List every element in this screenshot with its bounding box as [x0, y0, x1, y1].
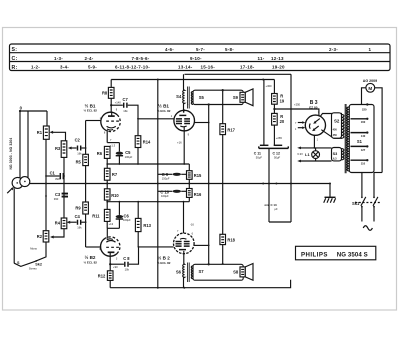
- svg-text:C3: C3: [55, 192, 61, 197]
- resistor R12: [98, 264, 113, 288]
- svg-text:20: 20: [280, 119, 285, 124]
- svg-text:6-11-8-12-7-10-: 6-11-8-12-7-10-: [115, 65, 150, 70]
- wire to B3 cathode: [274, 109, 319, 116]
- switch Sk1: [352, 173, 381, 222]
- svg-text:1: 1: [369, 47, 372, 52]
- svg-text:16k: 16k: [123, 109, 128, 113]
- capacitor C12: [273, 145, 283, 159]
- R3 wiper arrow from C2: [68, 147, 77, 150]
- svg-text:220: 220: [362, 107, 367, 111]
- svg-text:Sk2: Sk2: [35, 263, 42, 267]
- primary selector box S1: [347, 105, 374, 173]
- svg-text:50μF: 50μF: [256, 156, 263, 160]
- svg-text:R11: R11: [92, 214, 100, 219]
- svg-text:0: 0: [20, 105, 23, 110]
- wire B1a grid lead: [86, 120, 102, 122]
- tap 160: [351, 118, 369, 125]
- svg-text:450: 450: [333, 134, 338, 137]
- svg-text:½ B 2: ½ B 2: [158, 255, 171, 261]
- svg-text:C1: C1: [50, 170, 56, 175]
- capacitor C8: [110, 247, 138, 272]
- svg-text:7: 7: [318, 111, 320, 114]
- capacitor C7: [123, 97, 129, 113]
- heater wire top: [297, 147, 331, 150]
- resistor R18: [220, 234, 236, 265]
- svg-text:S6: S6: [176, 269, 182, 274]
- svg-text:S: S: [17, 261, 20, 265]
- wire B2a top node row: [107, 227, 119, 229]
- main ground bus wire: [30, 183, 330, 185]
- heater wire bottom: [297, 160, 331, 163]
- pentode B1b: [171, 104, 195, 136]
- svg-text:R8: R8: [102, 91, 108, 96]
- svg-text:100μF: 100μF: [125, 155, 133, 159]
- svg-text:17-18-: 17-18-: [240, 65, 255, 70]
- svg-text:S4: S4: [176, 94, 182, 99]
- svg-text:S2: S2: [334, 118, 340, 123]
- R1 wiper arrow: [49, 131, 65, 141]
- wire R2 top lead: [45, 184, 47, 231]
- motor AG2009: [362, 79, 383, 172]
- wire R17 to R18: [222, 135, 224, 235]
- svg-text:3: 3: [116, 258, 118, 261]
- svg-text:C 11: C 11: [254, 152, 261, 156]
- svg-text:R3: R3: [55, 146, 61, 151]
- input connector jack: [12, 177, 30, 189]
- svg-text:9: 9: [116, 109, 118, 112]
- svg-text:8: 8: [104, 131, 106, 134]
- svg-text:+250: +250: [294, 102, 301, 106]
- capacitor C9: [158, 172, 190, 180]
- svg-text:min C 13: min C 13: [265, 203, 277, 207]
- svg-text:R:: R:: [12, 65, 18, 71]
- capacitor C11: [254, 145, 269, 159]
- capacitor C5: [116, 143, 133, 164]
- svg-text:NG 3504 S: NG 3504 S: [337, 251, 368, 258]
- node +250 junction: [273, 108, 275, 110]
- wire secondary rail x208.7: [208, 105, 210, 265]
- svg-text:Sk1: Sk1: [352, 201, 360, 206]
- svg-text:S3: S3: [333, 152, 338, 156]
- svg-text:Mono: Mono: [30, 247, 37, 251]
- label B2b: [157, 255, 171, 265]
- svg-text:3-4-: 3-4-: [60, 65, 69, 70]
- cathode rail y164: [107, 158, 189, 164]
- svg-text:R12: R12: [98, 274, 106, 279]
- wire cathode node row B1a: [107, 142, 119, 144]
- svg-text:½ B1: ½ B1: [158, 102, 169, 108]
- wire rail to R8: [110, 80, 112, 88]
- svg-text:11-: 11-: [258, 56, 265, 61]
- svg-text:1-2-: 1-2-: [31, 65, 40, 70]
- table row C labels: [12, 56, 285, 62]
- svg-text:S7: S7: [199, 269, 205, 274]
- resistor R1: [37, 126, 49, 139]
- svg-text:12-13: 12-13: [271, 56, 284, 61]
- wire top-left horizontal: [20, 110, 47, 112]
- svg-text:+90: +90: [113, 265, 118, 269]
- lamp L1: [297, 148, 319, 161]
- capacitor C10: [158, 190, 190, 198]
- wire R9 bottom to B2a grid: [85, 214, 87, 247]
- rectifier B3: [305, 115, 325, 135]
- wire B2b screen lead: [194, 244, 209, 246]
- switch Sk2: [14, 188, 46, 270]
- svg-text:450: 450: [333, 129, 338, 132]
- svg-text:R18: R18: [227, 237, 235, 242]
- resistor R2: [37, 231, 49, 242]
- svg-text:4-6-: 4-6-: [165, 47, 174, 52]
- resistor R16: [187, 184, 203, 202]
- svg-text:1: 1: [171, 115, 173, 118]
- resistor R15: [187, 164, 203, 184]
- svg-text:½ B2: ½ B2: [85, 254, 96, 260]
- B3 left pin arrows: [295, 111, 320, 142]
- svg-text:2-4-: 2-4-: [85, 56, 94, 61]
- resistor R20: [272, 113, 285, 125]
- wire B2b cathode lead: [183, 202, 185, 234]
- svg-text:7-8-5-6-: 7-8-5-6-: [132, 56, 150, 61]
- svg-text:C5: C5: [125, 150, 131, 155]
- ground symbol: [324, 184, 336, 203]
- svg-text:R15: R15: [194, 173, 202, 178]
- wire B1b plate lead: [183, 109, 185, 113]
- svg-text:1-3-: 1-3-: [54, 56, 63, 61]
- svg-text:16k: 16k: [77, 151, 82, 155]
- svg-text:M: M: [368, 86, 372, 91]
- svg-text:PHILIPS: PHILIPS: [301, 251, 328, 258]
- capacitor C13 branch: [265, 148, 292, 222]
- resistor R17: [220, 89, 236, 135]
- svg-text:10k: 10k: [125, 267, 130, 271]
- wire HT rail right corner: [290, 74, 292, 222]
- wire B1b screen lead: [194, 122, 208, 124]
- svg-text:R6: R6: [97, 151, 103, 156]
- svg-text:½ ECL 82: ½ ECL 82: [157, 261, 171, 265]
- R4 wiper arrow from C4: [67, 221, 77, 224]
- label B2a: [84, 254, 98, 264]
- triode B1a: [100, 109, 121, 143]
- svg-text:R1: R1: [37, 130, 43, 135]
- svg-text:7: 7: [295, 122, 297, 125]
- svg-text:9: 9: [188, 133, 190, 136]
- svg-text:R14: R14: [143, 139, 151, 144]
- svg-text:L1: L1: [305, 152, 310, 157]
- wire x20 input to node0: [19, 111, 21, 178]
- svg-text:C 12: C 12: [273, 152, 280, 156]
- capacitor C3: [54, 192, 68, 201]
- svg-text:R13: R13: [143, 223, 151, 228]
- mains transformer S3 winding: [332, 148, 344, 161]
- svg-text:110: 110: [361, 162, 366, 166]
- connection table frame: [10, 44, 391, 71]
- capacitor C6: [116, 202, 131, 229]
- label B1a: [84, 102, 98, 112]
- wire B2b grid lead: [139, 246, 174, 248]
- R2 wiper arrow from R4: [50, 229, 64, 239]
- svg-text:C6: C6: [124, 213, 130, 218]
- resistor R4: [55, 218, 67, 229]
- svg-text:R9: R9: [75, 205, 81, 210]
- svg-text:1: 1: [317, 139, 319, 142]
- label B1b: [157, 102, 171, 112]
- svg-text:R5: R5: [76, 159, 82, 164]
- resistor R8: [102, 87, 114, 98]
- svg-text:7: 7: [110, 139, 112, 142]
- label B3: [309, 100, 318, 110]
- svg-text:½ B1: ½ B1: [85, 102, 96, 108]
- svg-text:S9: S9: [233, 95, 239, 100]
- wire R5 bottom to bus: [85, 166, 87, 184]
- resistor R19: [272, 94, 285, 105]
- svg-text:C 8: C 8: [123, 256, 130, 261]
- PHILIPS type box: [296, 246, 376, 259]
- svg-text:+1.3: +1.3: [110, 143, 116, 147]
- wire rail corner to R19: [273, 80, 275, 94]
- wire B1b cathode lead: [183, 127, 185, 164]
- svg-text:AG 2009: AG 2009: [363, 79, 377, 83]
- svg-text:390: 390: [54, 197, 59, 201]
- HT inner rail wire: [111, 79, 274, 81]
- svg-text:6,3: 6,3: [333, 157, 337, 160]
- loudspeaker loop box S7-S8: [191, 263, 243, 280]
- mains transformer S2 winding: [332, 113, 344, 138]
- svg-text:S8: S8: [233, 269, 239, 274]
- svg-text:S1: S1: [357, 139, 363, 144]
- resistor R7: [104, 164, 117, 184]
- svg-text:140: 140: [361, 134, 366, 138]
- svg-text:½ ECL 82: ½ ECL 82: [84, 109, 98, 113]
- loudspeaker loop box S5-S9: [191, 90, 243, 104]
- capacitor C2: [75, 138, 86, 156]
- svg-text:R10: R10: [111, 193, 119, 198]
- wire R9 top to bus: [85, 184, 87, 203]
- bus junction dots: [45, 147, 331, 223]
- svg-text:C:: C:: [12, 56, 18, 62]
- output transformer S4 winding: [176, 74, 184, 112]
- wire R19 to R20: [273, 104, 275, 113]
- svg-text:+300: +300: [266, 84, 273, 88]
- svg-text:½ ECL 82: ½ ECL 82: [157, 109, 171, 113]
- svg-text:19: 19: [280, 99, 285, 104]
- svg-text:NG 3003 - NG 3204: NG 3003 - NG 3204: [9, 138, 13, 170]
- pentode B2b: [174, 230, 195, 254]
- resistor R10: [104, 184, 119, 202]
- AC mains symbol: [363, 226, 372, 231]
- svg-text:50μF: 50μF: [274, 156, 281, 160]
- svg-text:150μF: 150μF: [162, 176, 170, 180]
- resistor R3: [55, 141, 67, 158]
- svg-text:C7: C7: [123, 97, 129, 102]
- wire R20 to C12: [273, 125, 275, 145]
- triode B2a: [99, 228, 120, 260]
- wire R8 bottom to plate node: [110, 98, 112, 113]
- wire C7 to R14: [128, 105, 138, 136]
- svg-text:5-9-: 5-9-: [88, 65, 97, 70]
- wire B2a grid lead: [86, 246, 102, 248]
- transformer core top: [188, 87, 190, 109]
- transformer core bottom: [188, 263, 190, 283]
- svg-text:½ ECL 82: ½ ECL 82: [84, 260, 98, 264]
- svg-text:6: 6: [192, 233, 194, 236]
- wire R14 bottom to cathode rail: [137, 148, 139, 165]
- tap 220: [362, 103, 368, 111]
- svg-text:15-16-: 15-16-: [201, 65, 216, 70]
- speaker S8: [233, 264, 253, 281]
- wire rail to C11: [263, 80, 265, 146]
- svg-text:R2: R2: [37, 234, 43, 239]
- svg-text:S5: S5: [199, 95, 205, 100]
- svg-text:-16: -16: [190, 222, 194, 226]
- svg-text:R16: R16: [194, 192, 202, 197]
- svg-text:+13: +13: [109, 222, 114, 226]
- svg-text:R17: R17: [227, 128, 235, 133]
- B3 plate wires to S2: [320, 114, 342, 139]
- svg-text:9-10-: 9-10-: [190, 56, 202, 61]
- svg-text:2-3-: 2-3-: [329, 47, 338, 52]
- input arrow: [7, 187, 13, 193]
- wire B3 heater lead: [313, 135, 315, 148]
- svg-text:5-7-: 5-7-: [196, 47, 205, 52]
- svg-text:C 10: C 10: [160, 190, 169, 195]
- rail junction dots: [157, 79, 264, 81]
- table row R labels: [12, 65, 286, 71]
- capacitor C1: [46, 170, 63, 180]
- tap 127: [351, 145, 369, 152]
- svg-text:+16: +16: [177, 141, 182, 145]
- svg-text:160: 160: [361, 120, 366, 124]
- svg-text:C4: C4: [75, 214, 81, 219]
- HT outer rail wire: [185, 73, 292, 75]
- wire x64 R3 bottom to R4 top: [63, 157, 65, 218]
- svg-text:7: 7: [177, 230, 179, 233]
- svg-text:C2: C2: [75, 138, 81, 143]
- wire R1 top lead: [46, 111, 48, 126]
- wire plate node to C7: [111, 104, 123, 106]
- svg-text:1: 1: [295, 128, 297, 131]
- svg-text:16k: 16k: [77, 226, 82, 230]
- svg-text:5-8-: 5-8-: [225, 47, 234, 52]
- resistor R13: [135, 202, 151, 247]
- svg-text:R4: R4: [55, 221, 61, 226]
- svg-text:13-14-: 13-14-: [178, 65, 193, 70]
- motor outer wire: [374, 172, 382, 174]
- speaker S9: [233, 89, 253, 106]
- svg-text:6.3V: 6.3V: [297, 152, 303, 156]
- resistor R14: [135, 136, 151, 148]
- svg-text:100μF: 100μF: [161, 194, 169, 198]
- svg-text:EZ 80: EZ 80: [309, 106, 318, 110]
- svg-text:100μF: 100μF: [123, 218, 131, 222]
- transformer core mains: [345, 104, 346, 173]
- wire grid column x85.6: [85, 121, 87, 155]
- svg-text:+265: +265: [276, 136, 283, 140]
- cathode rail y201.7: [107, 201, 189, 203]
- table row S labels: [12, 47, 372, 53]
- svg-text:390: 390: [55, 177, 60, 181]
- shared capacitor plate C11 C12: [259, 146, 289, 148]
- resistor R11: [92, 202, 110, 229]
- wire R1 bottom to bus: [45, 139, 47, 183]
- tap 140: [351, 131, 369, 138]
- svg-text:C 9: C 9: [162, 172, 169, 177]
- svg-text:S:: S:: [12, 47, 18, 53]
- svg-text:+140: +140: [115, 101, 122, 105]
- wire x28 to input: [27, 111, 29, 177]
- svg-text:μF: μF: [275, 207, 279, 211]
- resistor R6: [97, 146, 110, 158]
- wire center rail x157.8: [157, 80, 159, 288]
- output transformer S6 winding: [176, 251, 185, 288]
- svg-text:Stereo: Stereo: [29, 267, 37, 271]
- svg-text:R7: R7: [112, 172, 118, 177]
- svg-text:19-20: 19-20: [272, 65, 285, 70]
- resistor R5: [76, 154, 89, 165]
- svg-text:127: 127: [361, 148, 366, 152]
- capacitor C4: [75, 214, 86, 229]
- bottom return bus wire: [110, 280, 290, 288]
- wire B2a plate to node: [109, 256, 111, 265]
- tap 110: [351, 159, 369, 166]
- resistor R9: [75, 202, 88, 214]
- wire B1b grid lead: [138, 118, 174, 120]
- node plate B1a: [110, 104, 112, 106]
